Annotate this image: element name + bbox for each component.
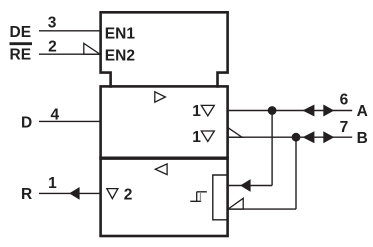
overline of RE (10, 42, 33, 45)
wire to receiver noninverting input (227, 185, 272, 187)
driver direction triangle (155, 92, 166, 102)
nabla symbol A row (201, 105, 214, 116)
svg-text:6: 6 (340, 92, 349, 109)
svg-text:7: 7 (340, 119, 349, 136)
wire D input (39, 120, 101, 122)
arrowhead into receiver input (240, 179, 250, 192)
divider between driver and receiver sections (99, 156, 229, 159)
svg-text:D: D (21, 115, 32, 132)
driver/receiver outer box (101, 86, 228, 236)
receiver direction triangle (155, 164, 167, 175)
svg-text:R: R (21, 186, 32, 203)
inverter triangle on EN2 input (84, 43, 100, 54)
wire B (227, 136, 352, 138)
svg-text:1: 1 (192, 129, 201, 146)
wire to receiver inverting input (227, 208, 296, 210)
wire from A junction down (271, 111, 273, 186)
svg-text:1: 1 (48, 175, 57, 192)
svg-text:3: 3 (48, 15, 57, 32)
svg-text:2: 2 (48, 38, 57, 55)
svg-text:DE: DE (10, 24, 32, 41)
hysteresis symbol (190, 192, 207, 202)
wire RE to EN2 (39, 53, 101, 55)
junction dot A (268, 106, 277, 115)
svg-text:2: 2 (124, 186, 133, 203)
bidirectional arrow pair on A (303, 105, 315, 117)
bidirectional arrow pair on B (303, 131, 315, 143)
svg-text:EN1: EN1 (105, 26, 136, 43)
arrowhead on R output (69, 187, 79, 200)
wire R output (39, 192, 101, 194)
enable box EN1/EN2 (101, 12, 228, 88)
open triangle on receiver inverting input (228, 198, 243, 209)
junction dot B (292, 133, 301, 142)
wire from B junction down (295, 137, 297, 209)
svg-text:B: B (357, 130, 368, 147)
svg-text:RE: RE (10, 46, 32, 63)
receiver input bracket (213, 175, 227, 220)
svg-text:A: A (357, 103, 368, 120)
receiver nabla symbol (107, 189, 118, 199)
nabla symbol B row (201, 131, 214, 142)
inverting triangle on driver B output (228, 128, 242, 138)
svg-text:4: 4 (50, 107, 59, 124)
wire DE to EN1 (39, 30, 101, 32)
svg-text:1: 1 (192, 103, 201, 120)
wire A (227, 110, 352, 112)
svg-text:EN2: EN2 (105, 48, 135, 65)
